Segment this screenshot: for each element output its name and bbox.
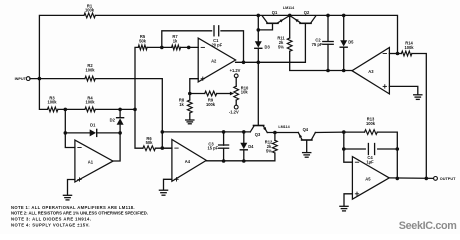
svg-text:A1: A1 bbox=[88, 160, 94, 165]
svg-text:D1: D1 bbox=[90, 123, 96, 128]
svg-text:NOTE 4: SUPPLY VOLTAGE ±15V.: NOTE 4: SUPPLY VOLTAGE ±15V. bbox=[11, 222, 90, 227]
svg-text:75 pF: 75 pF bbox=[312, 42, 323, 47]
svg-text:NOTE 1: ALL OPERATIONAL AMPLIF: NOTE 1: ALL OPERATIONAL AMPLIFIERS ARE L… bbox=[11, 205, 135, 210]
svg-text:A3: A3 bbox=[368, 69, 374, 74]
svg-text:100k: 100k bbox=[85, 68, 95, 73]
svg-text:100k: 100k bbox=[47, 100, 57, 105]
svg-text:15 pF: 15 pF bbox=[207, 146, 218, 151]
svg-text:NOTE 2: ALL RESISTORS ARE 1% U: NOTE 2: ALL RESISTORS ARE 1% UNLESS OTHE… bbox=[11, 211, 148, 216]
svg-text:NOTE 3: ALL DIODES ARE 1N914.: NOTE 3: ALL DIODES ARE 1N914. bbox=[11, 217, 91, 222]
svg-text:20 pF: 20 pF bbox=[211, 42, 222, 47]
svg-text:D4: D4 bbox=[248, 144, 254, 149]
svg-text:5%: 5% bbox=[266, 149, 272, 154]
svg-text:50k: 50k bbox=[146, 140, 154, 145]
svg-text:OUTPUT: OUTPUT bbox=[440, 177, 456, 181]
svg-text:1k: 1k bbox=[173, 39, 178, 44]
svg-text:A5: A5 bbox=[365, 176, 371, 181]
svg-text:A4: A4 bbox=[185, 159, 191, 164]
svg-text:10k: 10k bbox=[241, 90, 249, 95]
svg-text:A2: A2 bbox=[211, 58, 217, 63]
svg-text:SeekIC.com: SeekIC.com bbox=[399, 220, 457, 232]
svg-text:INPUT: INPUT bbox=[15, 77, 27, 81]
svg-text:Q4: Q4 bbox=[303, 127, 309, 132]
svg-text:-1.2V: -1.2V bbox=[229, 109, 239, 114]
svg-text:100k: 100k bbox=[404, 45, 414, 50]
svg-text:100k: 100k bbox=[85, 100, 95, 105]
svg-text:D3: D3 bbox=[265, 44, 271, 49]
svg-text:100k: 100k bbox=[85, 8, 95, 13]
svg-text:1k: 1k bbox=[179, 102, 184, 107]
svg-text:100k: 100k bbox=[206, 102, 216, 107]
svg-text:50k: 50k bbox=[139, 39, 147, 44]
svg-text:Q2: Q2 bbox=[304, 10, 310, 15]
svg-text:1μF: 1μF bbox=[366, 159, 374, 164]
svg-text:Q1: Q1 bbox=[272, 10, 278, 15]
svg-text:+1.2V: +1.2V bbox=[230, 68, 241, 73]
svg-text:LM114: LM114 bbox=[283, 6, 295, 10]
svg-text:LM114: LM114 bbox=[278, 125, 290, 129]
svg-text:5%: 5% bbox=[278, 45, 284, 50]
svg-text:Q3: Q3 bbox=[255, 132, 261, 137]
svg-text:D5: D5 bbox=[348, 40, 354, 45]
svg-text:D2: D2 bbox=[110, 118, 116, 123]
svg-text:100k: 100k bbox=[366, 121, 376, 126]
